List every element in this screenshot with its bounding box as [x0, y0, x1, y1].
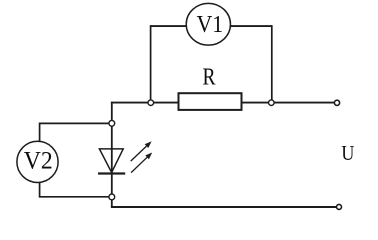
- wire V1 loop top horizontal: [151, 25, 272, 27]
- node junction left of resistor: [148, 100, 154, 106]
- LED light emission arrow upper: [131, 141, 152, 161]
- wire V2 top connection: [40, 123, 112, 142]
- LED light emission arrow lower: [131, 153, 152, 173]
- svg-text:V1: V1: [197, 12, 224, 38]
- LED D1 cathode bar: [98, 172, 125, 174]
- node junction LED branch bottom: [109, 194, 115, 200]
- wire V1 loop right vertical: [271, 25, 273, 103]
- LED D1 (diode triangle): [99, 149, 123, 173]
- terminal output bottom: [337, 204, 342, 209]
- wire V1 loop left vertical: [150, 25, 152, 103]
- svg-text:V2: V2: [24, 147, 53, 174]
- svg-text:U: U: [341, 141, 354, 165]
- wire bottom horizontal: [111, 206, 337, 208]
- terminal output top: [334, 100, 339, 105]
- wire main horizontal (node A to output): [111, 102, 335, 104]
- svg-text:R: R: [203, 63, 217, 90]
- resistor R: [179, 63, 242, 110]
- wire LED branch vertical: [111, 102, 113, 207]
- node junction LED branch top: [109, 120, 115, 126]
- voltmeter V2: [17, 141, 58, 182]
- voltmeter V1: [186, 3, 230, 45]
- node junction right of resistor: [269, 100, 275, 106]
- wire V2 bottom connection: [40, 182, 112, 197]
